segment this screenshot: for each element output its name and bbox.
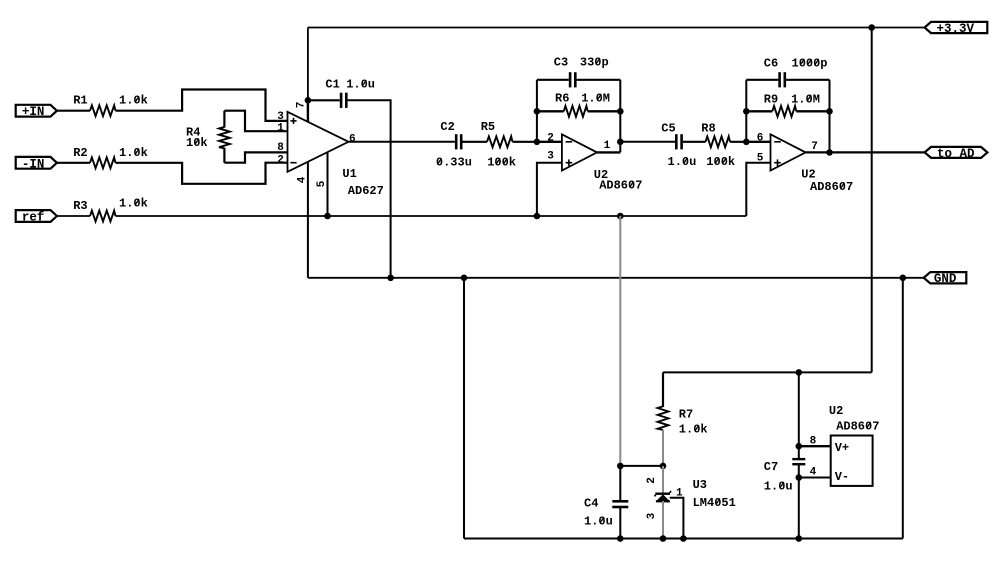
capacitor C7 <box>792 458 805 460</box>
wire +3.3V drop right <box>871 28 873 373</box>
op-amp U1 body <box>288 112 349 172</box>
wire +3.3V top rail <box>308 27 925 29</box>
junction R6 left <box>534 108 541 115</box>
junction C7 / V+ pin <box>796 443 803 450</box>
svg-text:5: 5 <box>316 180 328 187</box>
svg-text:2: 2 <box>547 133 554 145</box>
svg-text:R6: R6 <box>555 91 569 105</box>
svg-text:R3: R3 <box>73 199 87 213</box>
junction U3 anode / bottom rail <box>660 535 667 542</box>
U1 pin 5 wire to ref <box>327 152 329 216</box>
U2a feedback right vertical <box>619 80 621 153</box>
svg-text:LM4051: LM4051 <box>693 496 736 510</box>
svg-text:1: 1 <box>676 487 683 499</box>
U1 pin 7 stub <box>307 100 309 121</box>
junction ref / gray drop <box>617 213 624 220</box>
wire -IN to R2 <box>57 162 90 164</box>
wire C2 to R5 <box>463 141 488 143</box>
junction R9 right <box>826 108 833 115</box>
svg-text:AD8607: AD8607 <box>836 420 879 434</box>
svg-text:R2: R2 <box>73 146 87 160</box>
U2b pin 6 stub <box>746 141 770 143</box>
U3 pin 1 wire <box>670 498 684 539</box>
wire +IN to R1 <box>57 110 90 112</box>
svg-text:8: 8 <box>277 142 284 154</box>
svg-text:+3.3V: +3.3V <box>937 22 975 36</box>
svg-text:100k: 100k <box>706 155 735 169</box>
svg-text:R1: R1 <box>73 94 87 108</box>
U2b feedback left vertical <box>745 80 747 142</box>
U2a pin 2 stub <box>537 141 562 143</box>
svg-text:4: 4 <box>810 467 817 479</box>
wire gray drop from ref <box>619 216 621 466</box>
svg-text:to AD: to AD <box>937 147 975 161</box>
wire R8 to U2b input node <box>730 141 746 143</box>
junction U2b inverting input node <box>743 139 750 146</box>
resistor R2 <box>90 157 116 168</box>
svg-text:8: 8 <box>810 436 817 448</box>
diode U3 cathode bar <box>655 493 670 495</box>
wire +3.3V left drop to U1 pin 7 <box>307 28 309 101</box>
junction top horizontal / C7 column <box>796 369 803 376</box>
svg-text:2: 2 <box>277 154 284 166</box>
svg-text:ref: ref <box>22 211 45 225</box>
junction +3.3V rail / right drop <box>868 24 875 31</box>
diode U3 LM4051 cathode wire (gray) <box>662 466 664 493</box>
U2a plus mark <box>566 162 573 164</box>
port +3.3V <box>925 22 988 33</box>
svg-text:1000p: 1000p <box>792 56 828 70</box>
svg-text:0.33u: 0.33u <box>436 156 472 170</box>
resistor R7 <box>662 372 664 407</box>
resistor R9 <box>746 110 772 112</box>
wire ref net horizontal <box>57 215 90 217</box>
junction gray drop / C4 <box>617 463 624 470</box>
svg-text:100k: 100k <box>487 156 516 170</box>
wire C5 to R8 <box>683 141 706 143</box>
wire bottom rail <box>464 538 903 540</box>
U2a output pin 1 stub <box>597 151 620 153</box>
wire R4 bottom to U1 pin 8 <box>224 152 287 162</box>
svg-text:3: 3 <box>547 150 554 162</box>
capacitor C7 top wire <box>798 372 800 458</box>
svg-text:C7: C7 <box>764 460 778 474</box>
svg-text:V+: V+ <box>835 441 849 455</box>
junction GND rail / bottom-left drop <box>461 275 468 282</box>
svg-text:AD8607: AD8607 <box>599 179 642 193</box>
svg-text:1.0M: 1.0M <box>791 92 820 106</box>
svg-text:+IN: +IN <box>22 105 45 119</box>
port GND <box>924 272 967 283</box>
wire R7 to node (gray) <box>662 430 664 466</box>
op-amp U2b body <box>771 134 806 170</box>
wire GND drop left <box>463 278 465 539</box>
wire R5 to U2a input node <box>513 141 537 143</box>
junction U3 pin1 / bottom rail <box>680 535 687 542</box>
U2b output wire to port <box>806 151 925 153</box>
wire GND rail <box>308 277 924 279</box>
junction U2a inverting input node <box>534 139 541 146</box>
wire U1 pin7 to C1 <box>308 99 340 101</box>
U2b plus mark <box>774 162 781 164</box>
junction R7 / U3 node <box>660 463 667 470</box>
capacitor C3 <box>537 79 569 81</box>
svg-text:2: 2 <box>646 477 658 484</box>
svg-text:V-: V- <box>835 470 849 484</box>
svg-text:-IN: -IN <box>22 157 45 171</box>
U2 power pin 4 wire <box>799 477 831 479</box>
svg-text:4: 4 <box>296 176 308 183</box>
U2b minus mark <box>774 141 781 143</box>
svg-text:10k: 10k <box>186 136 208 150</box>
capacitor C2 <box>455 134 458 149</box>
capacitor C6 <box>746 79 778 81</box>
wire U2a out to C5 <box>620 141 675 143</box>
wire bottom circuit top horizontal <box>663 371 872 373</box>
svg-text:1.0k: 1.0k <box>679 423 708 437</box>
svg-text:1.0u: 1.0u <box>346 77 375 91</box>
svg-text:C1: C1 <box>325 77 339 91</box>
U1 pin 4 wire to GND rail <box>307 162 309 278</box>
svg-text:U2: U2 <box>829 404 843 418</box>
resistor R3 <box>90 211 116 222</box>
junction C7 / bottom rail <box>796 535 803 542</box>
svg-text:GND: GND <box>934 272 957 286</box>
svg-text:C6: C6 <box>764 56 778 70</box>
svg-text:1.0k: 1.0k <box>119 94 148 108</box>
svg-text:1.0M: 1.0M <box>581 91 610 105</box>
port +IN <box>16 105 57 117</box>
wire C1 to GND rail <box>348 100 391 277</box>
junction R6 right <box>617 108 624 115</box>
svg-text:7: 7 <box>295 102 307 109</box>
svg-text:3: 3 <box>277 111 284 123</box>
U2 power pin 8 wire <box>799 445 831 447</box>
diode U3 anode wire (gray) <box>662 501 664 539</box>
op-amp U2a body <box>562 134 597 170</box>
svg-text:C5: C5 <box>661 121 675 135</box>
U2a feedback left vertical <box>536 80 538 142</box>
U2b feedback right vertical <box>829 80 831 153</box>
svg-text:1.0u: 1.0u <box>668 155 697 169</box>
wire C4 node to U3 node <box>620 465 663 467</box>
wire R4 top to U1 pin 1 <box>224 111 287 132</box>
diode U3 triangle <box>656 494 670 501</box>
junction U2a output node <box>617 139 624 146</box>
svg-text:C4: C4 <box>584 497 598 511</box>
svg-text:1: 1 <box>277 122 284 134</box>
junction ref / U2a pin 3 <box>534 213 541 220</box>
junction GND rail / C1 drop <box>387 275 394 282</box>
svg-text:1.0u: 1.0u <box>764 479 793 493</box>
svg-text:R5: R5 <box>481 120 495 134</box>
svg-text:C3: C3 <box>554 55 568 69</box>
junction ref / U1 pin 5 <box>324 213 331 220</box>
resistor R5 <box>487 136 513 147</box>
wire GND drop right <box>902 278 904 539</box>
svg-text:1.0u: 1.0u <box>584 514 613 528</box>
svg-text:R8: R8 <box>701 121 715 135</box>
junction C4 / bottom rail <box>617 535 624 542</box>
svg-text:1: 1 <box>604 140 611 152</box>
port -IN <box>16 157 57 169</box>
capacitor C4 <box>619 466 621 501</box>
junction U1 pin 7 / C1 <box>305 97 312 104</box>
wire R2 to R4 network (pin 2 path) <box>116 163 288 184</box>
U1 plus mark <box>290 120 296 122</box>
svg-text:7: 7 <box>811 141 818 153</box>
resistor R1 <box>90 105 116 116</box>
svg-text:R7: R7 <box>679 408 693 422</box>
svg-text:6: 6 <box>349 133 356 145</box>
svg-text:1.0k: 1.0k <box>119 146 148 160</box>
port to AD <box>925 147 988 158</box>
svg-text:330p: 330p <box>580 55 609 69</box>
resistor R4 <box>219 127 230 148</box>
wire R1 to R4 network (pin 3 path) <box>116 90 288 121</box>
svg-text:C2: C2 <box>440 120 454 134</box>
svg-text:U3: U3 <box>693 478 707 492</box>
U2b pin 5 wire to ref corner <box>746 163 770 216</box>
U2a pin 3 wire to ref <box>537 163 562 216</box>
svg-text:1.0k: 1.0k <box>119 196 148 210</box>
svg-text:AD627: AD627 <box>348 184 384 198</box>
svg-text:AD8607: AD8607 <box>810 180 853 194</box>
junction U2b output / feedback <box>826 149 833 156</box>
capacitor C1 <box>340 93 343 108</box>
junction R9 left <box>743 108 750 115</box>
port ref <box>16 210 57 222</box>
svg-text:6: 6 <box>757 132 764 144</box>
svg-text:5: 5 <box>757 152 764 164</box>
capacitor C5 <box>675 134 678 149</box>
resistor R6 <box>537 110 564 112</box>
resistor R8 <box>706 136 731 147</box>
svg-text:3: 3 <box>646 512 658 519</box>
U2 power box <box>831 436 873 486</box>
svg-text:R9: R9 <box>764 92 778 106</box>
junction C7 / V- pin <box>796 474 803 481</box>
svg-text:U1: U1 <box>342 167 356 181</box>
junction GND rail / bottom-right drop <box>900 275 907 282</box>
wire U1 output to C2 <box>349 141 455 143</box>
U1 minus mark <box>290 162 296 164</box>
U2a minus mark <box>566 141 573 143</box>
